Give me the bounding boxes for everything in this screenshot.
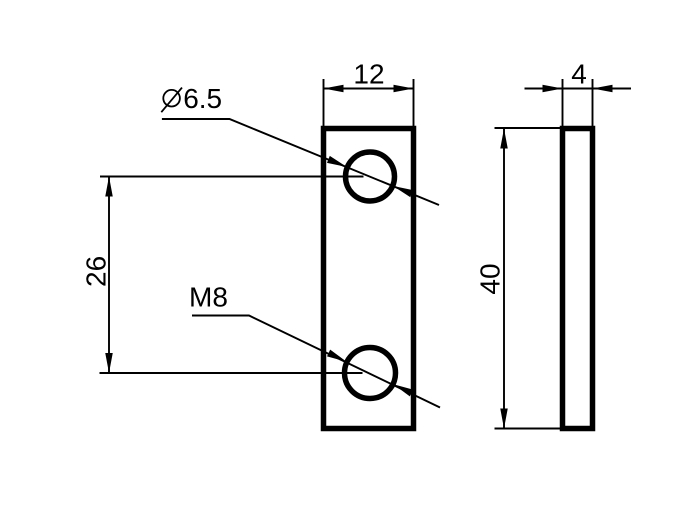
leader M8 arrow upper-left on hole [327, 350, 347, 362]
dim 26 arrow bottom [105, 353, 113, 373]
diameter symbol of Ø6.5 label [163, 90, 180, 107]
dim 40 arrow bottom [500, 409, 508, 429]
svg-text:12: 12 [353, 59, 384, 90]
dim 26 dimension line [108, 177, 110, 374]
dim 4 extension line right [592, 79, 594, 126]
leader line M8 [192, 316, 440, 408]
dim 4 arrow left [543, 85, 563, 93]
dim 12 arrow right [394, 85, 414, 93]
leader Ø6.5 arrow lower-right on hole [393, 186, 413, 197]
dim 26 arrow top [105, 177, 113, 197]
svg-text:6.5: 6.5 [183, 83, 222, 114]
dim 26 extension line bottom [100, 372, 363, 374]
leader Ø6.5 arrow upper-left on hole [327, 156, 347, 167]
dim 12 extension line right [413, 79, 415, 126]
dim 26 extension line top [100, 176, 364, 178]
dim 12 dimension line [324, 88, 414, 90]
svg-text:26: 26 [81, 256, 112, 287]
dim 40 extension line top [495, 127, 562, 129]
dim 4 dimension line with outside tails [525, 88, 632, 90]
diameter symbol slash [161, 88, 182, 113]
leader line Ø6.5 [162, 119, 439, 205]
dim 12 arrow left [324, 85, 344, 93]
dim 4 extension line left [562, 79, 564, 126]
dim 4 arrow right [593, 85, 613, 93]
svg-text:4: 4 [571, 59, 587, 90]
svg-text:M8: M8 [189, 282, 228, 313]
leader M8 arrow lower-right on hole [393, 384, 413, 396]
dim 12 extension line left [323, 79, 325, 126]
hole bottom M8 [345, 348, 396, 399]
dim 40 dimension line [503, 129, 505, 429]
svg-text:40: 40 [475, 263, 506, 294]
dim 40 arrow top [500, 129, 508, 149]
side view plate outline [563, 129, 593, 429]
dim 40 extension line bottom [495, 428, 562, 430]
hole top Ø6.5 [346, 152, 395, 201]
front view plate outline [324, 129, 414, 429]
